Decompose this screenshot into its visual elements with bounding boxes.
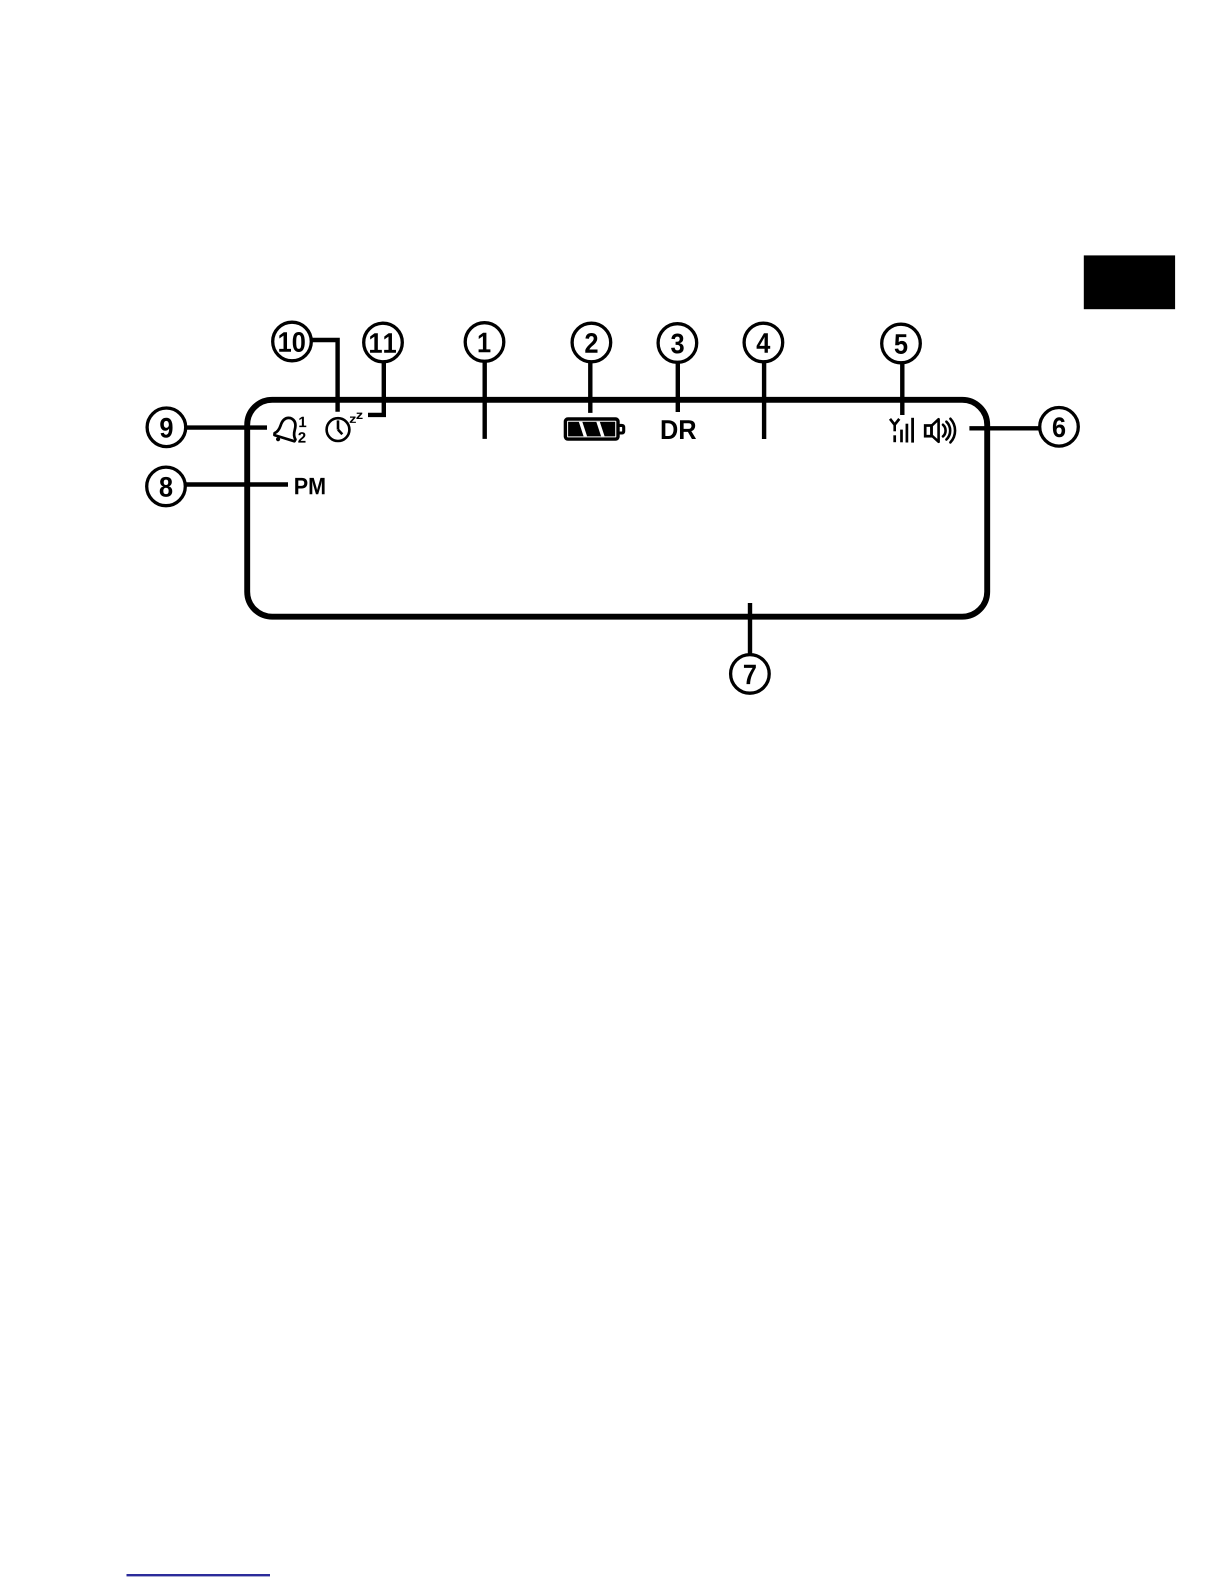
leader line 6	[969, 426, 1040, 430]
leader line 9	[186, 425, 267, 429]
leader line 11 (elbow to zz)	[368, 361, 384, 415]
leader line 1	[483, 361, 487, 439]
callout circle 8	[147, 467, 186, 506]
callout circle 4	[744, 323, 783, 362]
callout circle 1	[465, 323, 504, 362]
leader line 2	[588, 361, 592, 413]
leader line 5	[900, 361, 904, 415]
DR text	[662, 420, 696, 439]
leader line 10 (elbow to clock icon)	[311, 340, 338, 412]
zz sleep indicator	[350, 413, 363, 423]
PM text	[295, 478, 324, 494]
battery icon	[565, 419, 623, 439]
callout circle 3	[658, 324, 697, 363]
LCD display outline	[247, 400, 987, 617]
callout circle 7	[731, 655, 770, 694]
leader line 7	[748, 603, 752, 654]
leader line 4	[762, 361, 766, 439]
leader line 8	[186, 482, 288, 486]
alarm bell icon with indicators 1/2	[273, 415, 307, 446]
callout circle 5	[882, 324, 921, 363]
callout circle 11	[364, 323, 403, 362]
black tab rectangle (page index marker)	[1084, 255, 1175, 309]
footer blue line	[127, 1574, 271, 1576]
sleep timer clock icon	[327, 418, 350, 441]
callout circle 6	[1040, 408, 1079, 447]
callout circle 10	[273, 322, 312, 361]
leader line 3	[676, 361, 680, 412]
callout circle 9	[147, 408, 186, 447]
speaker icon	[925, 419, 955, 443]
signal strength antenna icon	[890, 418, 913, 443]
callout circle 2	[572, 323, 611, 362]
